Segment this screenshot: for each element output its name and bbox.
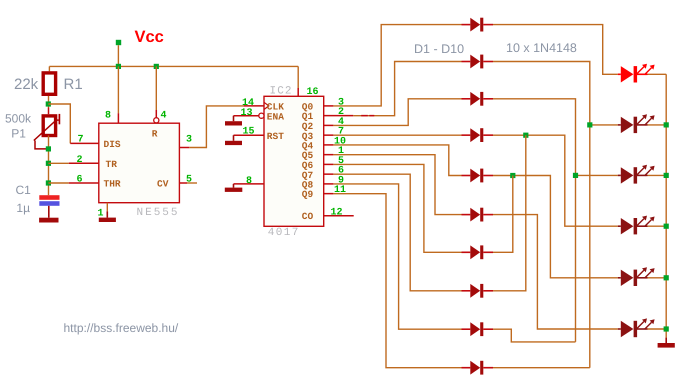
svg-text:NE555: NE555 bbox=[137, 207, 180, 219]
op-amp timer U1 NE555 bbox=[99, 123, 180, 203]
svg-text:4017: 4017 bbox=[268, 227, 300, 239]
pin 5 CV stub bbox=[179, 182, 187, 184]
node junction LED2 feed bbox=[587, 122, 592, 127]
pin 2 Q1 long stub bbox=[324, 115, 354, 117]
wire cathode rail bbox=[665, 74, 667, 337]
node junction TR tap bbox=[46, 161, 51, 166]
wire THR net bbox=[48, 182, 68, 184]
wire D6 to LED6 bbox=[493, 215, 618, 329]
LED LED1 (lit) bbox=[618, 64, 655, 83]
svg-text:DIS: DIS bbox=[104, 139, 121, 150]
pin 3 Q0 stub bbox=[324, 105, 334, 107]
node junction THR tap bbox=[46, 180, 51, 185]
clock wedge bbox=[264, 102, 269, 109]
wire LED6 cathode to rail bbox=[648, 328, 667, 330]
pin 12 CO stub bbox=[324, 215, 354, 217]
node junction rail/LED2 bbox=[664, 122, 669, 127]
diode D10 1N4148 bbox=[462, 361, 494, 375]
wire D2 down bus bbox=[493, 62, 590, 368]
pin 14 CLK stub bbox=[244, 105, 264, 107]
pin 2 TR stub bbox=[69, 162, 99, 164]
diode D7 1N4148 bbox=[462, 245, 494, 259]
wire Q5 to D6 bbox=[333, 155, 461, 215]
wire D1 to LED1 bbox=[493, 25, 618, 75]
node junction wiper bbox=[46, 146, 51, 151]
svg-text:CV: CV bbox=[157, 179, 169, 190]
wire LED4 cathode to rail bbox=[648, 225, 667, 227]
LED LED2 bbox=[618, 114, 655, 133]
svg-text:500k: 500k bbox=[5, 112, 32, 126]
wire CV dead-end stub bbox=[187, 182, 197, 184]
svg-text:3: 3 bbox=[186, 135, 192, 146]
node junction LED3 feed bbox=[573, 173, 578, 178]
wire Q0 to D1 bbox=[333, 25, 461, 106]
svg-text:15: 15 bbox=[243, 127, 255, 138]
wire Vcc rail bbox=[49, 65, 298, 67]
node junction rail/LED3 bbox=[664, 173, 669, 178]
svg-text:12: 12 bbox=[331, 207, 343, 218]
wire bus to LED2 bbox=[590, 124, 618, 126]
svg-text:2: 2 bbox=[77, 155, 83, 166]
svg-text:6: 6 bbox=[77, 175, 83, 186]
wire OUT to CLK bbox=[189, 106, 243, 148]
svg-text:8: 8 bbox=[105, 111, 111, 122]
wire rail to pin 16 bbox=[297, 66, 299, 88]
wire Q4 to D5 bbox=[333, 145, 461, 176]
diode D4 1N4148 bbox=[462, 128, 494, 142]
pin 7 DIS stub bbox=[70, 142, 99, 144]
LED LED3 bbox=[618, 165, 655, 184]
pin 6 THR stub bbox=[69, 182, 99, 184]
svg-text:11: 11 bbox=[334, 185, 346, 196]
node junction D4/D8 bbox=[523, 133, 528, 138]
pin 4 Q2 stub bbox=[324, 124, 334, 126]
pin 6 Q7 stub bbox=[324, 173, 334, 175]
node junction R1/P1/DIS bbox=[46, 101, 51, 106]
pin 3 OUT stub bbox=[179, 147, 189, 149]
svg-text:TR: TR bbox=[106, 159, 118, 170]
node junction D5/D7 bbox=[510, 173, 515, 178]
LED LED5 bbox=[618, 267, 655, 286]
ground at RST bbox=[233, 135, 235, 141]
pin 16 stub bbox=[297, 88, 299, 96]
svg-text:IC2: IC2 bbox=[270, 86, 293, 98]
svg-text:D1 - D10: D1 - D10 bbox=[414, 42, 464, 56]
svg-text:16: 16 bbox=[307, 87, 319, 98]
svg-text:C1: C1 bbox=[16, 183, 32, 197]
wire Q7 to D8 bbox=[333, 174, 461, 291]
wire P1 wiper tail bbox=[35, 141, 48, 149]
LED LED4 bbox=[618, 216, 655, 235]
svg-text:22k: 22k bbox=[14, 76, 39, 93]
svg-text:Q9: Q9 bbox=[302, 189, 314, 200]
svg-text:THR: THR bbox=[104, 179, 121, 190]
ground below C1 bbox=[48, 206, 50, 218]
node junction rail/LED4 bbox=[664, 224, 669, 229]
node junction rail/pin4 bbox=[154, 64, 159, 69]
svg-text:Vcc: Vcc bbox=[135, 28, 164, 46]
wire P1 bottom to C1 bbox=[48, 136, 50, 196]
diode D5 1N4148 bbox=[462, 169, 494, 183]
svg-text:R1: R1 bbox=[64, 76, 83, 93]
wire Q3 to D4 bbox=[333, 134, 461, 136]
pin 4 inversion bubble bbox=[154, 118, 159, 123]
ground at ENA bbox=[233, 116, 235, 122]
wire rail to pin 4 bbox=[155, 66, 157, 110]
LED LED6 bbox=[618, 318, 655, 337]
wire D4 to LED4 bbox=[493, 135, 618, 226]
node junction rail/LED6 bbox=[664, 326, 669, 331]
pin 8 GND stub bbox=[234, 183, 265, 185]
wire junction to DIS bbox=[48, 104, 70, 143]
wire D9 to D3 bus bbox=[493, 329, 576, 342]
pin 5 Q6 stub bbox=[324, 163, 334, 165]
diode D3 1N4148 bbox=[462, 92, 494, 106]
pin 15 RST stub bbox=[234, 134, 265, 136]
pin 13 ENA bubble bbox=[259, 113, 264, 118]
wire Q1 to D2 bbox=[353, 62, 461, 116]
wire Q6 to D7 bbox=[333, 164, 461, 252]
svg-text:ENA: ENA bbox=[267, 111, 284, 122]
capacitor C1 1u bbox=[39, 195, 59, 200]
svg-text:10 x 1N4148: 10 x 1N4148 bbox=[506, 41, 577, 55]
wire Q9 to D10 bbox=[333, 194, 461, 368]
ground at cathode rail bbox=[665, 338, 667, 343]
wire rail to pin 8 bbox=[117, 66, 119, 113]
diode D2 1N4148 bbox=[462, 55, 494, 69]
pin 9 Q8 stub bbox=[324, 183, 334, 185]
pin overlap dashes on Q1 wire bbox=[361, 115, 374, 117]
diode D6 1N4148 bbox=[462, 208, 494, 222]
pin 1 Q5 stub bbox=[324, 154, 334, 156]
svg-text:http://bss.freeweb.hu/: http://bss.freeweb.hu/ bbox=[64, 321, 179, 335]
potentiometer P1 500k bbox=[43, 116, 55, 136]
svg-text:R: R bbox=[152, 129, 158, 140]
resistor R1 22k bbox=[43, 73, 55, 94]
wire LED5 cathode to rail bbox=[648, 277, 667, 279]
Vcc supply symbol bbox=[116, 40, 121, 45]
wire LED2 cathode to rail bbox=[648, 124, 667, 126]
wire D5 to LED5 bbox=[493, 176, 618, 278]
wire Q8 to D9 bbox=[333, 184, 461, 329]
diode D8 1N4148 bbox=[462, 284, 494, 298]
diode D1 1N4148 bbox=[462, 18, 494, 32]
wire D3 down bus bbox=[493, 99, 576, 342]
wire LED1 cathode to rail bbox=[648, 73, 667, 75]
pin 1 ground bbox=[106, 203, 108, 212]
pin 7 Q3 stub bbox=[324, 134, 334, 136]
svg-text:CO: CO bbox=[302, 211, 314, 222]
svg-text:RST: RST bbox=[267, 131, 284, 142]
pin 10 Q4 stub bbox=[324, 144, 334, 146]
counter IC2 4017 bbox=[264, 96, 324, 226]
svg-text:8: 8 bbox=[246, 176, 252, 187]
pin 13 ENA stub bbox=[234, 115, 259, 117]
svg-text:4: 4 bbox=[161, 111, 167, 122]
wire rail to R1 top bbox=[48, 66, 50, 71]
wire D7 up to D5 node bbox=[493, 176, 513, 253]
wire D10 to D2 bus bbox=[493, 367, 590, 369]
svg-text:1µ: 1µ bbox=[16, 201, 30, 215]
node junction rail/pin8 bbox=[116, 64, 121, 69]
pin 8 stub bbox=[117, 113, 119, 123]
svg-text:P1: P1 bbox=[11, 126, 26, 140]
wire LED3 cathode to rail bbox=[648, 174, 667, 176]
pin 4 stub bbox=[155, 110, 157, 118]
wire R1 bottom to P1 top bbox=[48, 96, 50, 108]
wire Q2 to D3 bbox=[333, 99, 461, 126]
svg-text:7: 7 bbox=[78, 135, 84, 146]
wire D8 up to D4 node bbox=[493, 135, 526, 291]
pin 11 Q9 stub bbox=[324, 193, 334, 195]
svg-text:13: 13 bbox=[241, 108, 253, 119]
ground at pin 8 bbox=[233, 184, 235, 188]
wire bus to LED3 bbox=[576, 174, 618, 176]
wire TR net bbox=[48, 162, 68, 164]
node junction rail/LED5 bbox=[664, 275, 669, 280]
diode D9 1N4148 bbox=[462, 322, 494, 336]
